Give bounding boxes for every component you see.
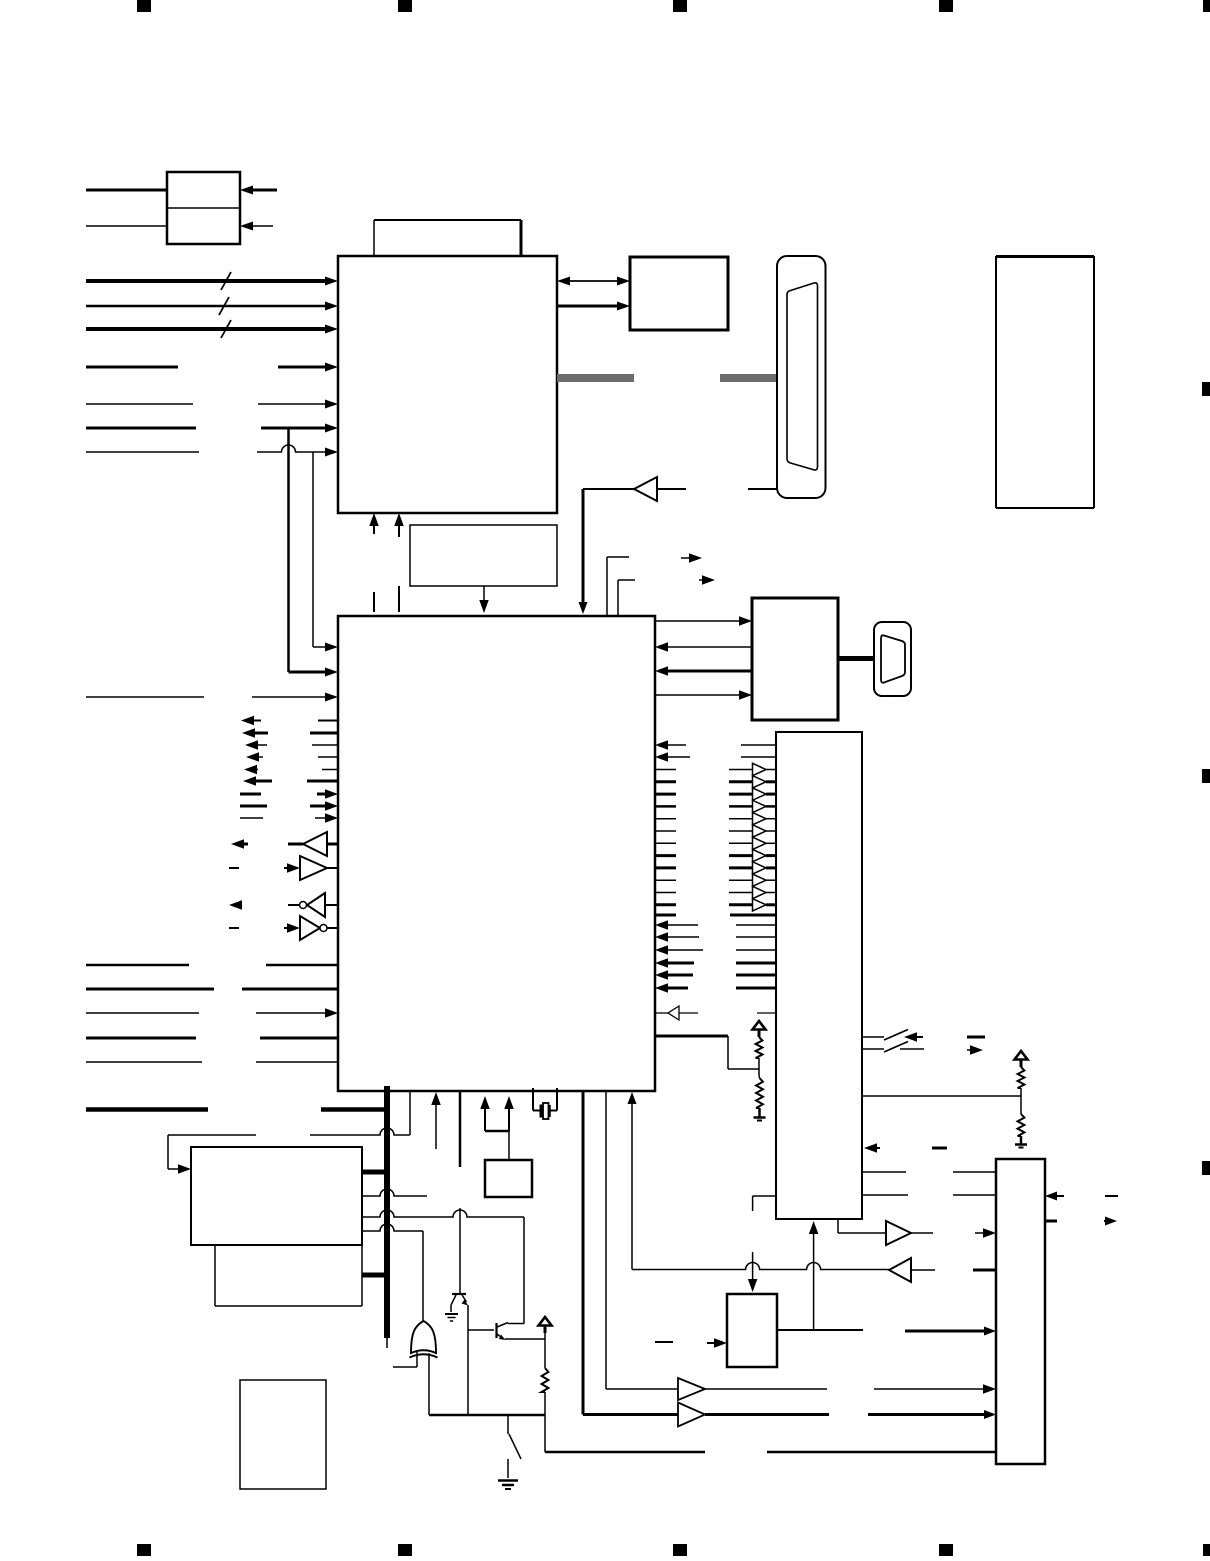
wire U7 output upper — [86, 189, 167, 192]
wire Q2 collector up — [508, 1323, 524, 1325]
ROM block U14 — [191, 1147, 362, 1245]
U2 output stub y781 — [307, 780, 338, 783]
wire U17b to U10 (arrow) — [705, 1384, 996, 1394]
direction arrow U6c — [229, 900, 242, 910]
inverter U6d (input) — [284, 916, 338, 940]
option block U18 — [240, 1380, 326, 1489]
buffer array element 10 — [753, 874, 777, 886]
wire U9 to U10 y1172 — [862, 1171, 996, 1173]
buffer array input row 2 — [729, 780, 752, 783]
power stub U15 to B1 — [362, 1273, 387, 1278]
direction arrow left y745 — [245, 740, 267, 750]
U2 stub row 11 — [655, 892, 676, 894]
wire Q2 emitter to R5 — [505, 1338, 545, 1340]
label dash y806 — [240, 805, 267, 808]
clock wires into U2 bottom — [480, 1096, 514, 1160]
transistor Q1 — [451, 1294, 468, 1312]
wire stub a above U2 — [373, 592, 375, 612]
wire branch node B down to U2 — [313, 452, 338, 652]
buffer U17a — [678, 1403, 705, 1427]
switch SW1 — [508, 1415, 521, 1478]
U2 stub row 12 — [655, 903, 676, 906]
buffer array input row 9 — [729, 866, 752, 869]
U2 stub row 8 — [655, 854, 676, 857]
wire stub corner c2 into U2 top — [618, 580, 635, 616]
pull-down resistor R2 — [756, 1075, 763, 1108]
wire branch node A down to U2 — [289, 428, 339, 677]
wire U11 to U10 (arrow) — [911, 1228, 996, 1238]
pull-up resistor R5 — [539, 1317, 552, 1415]
direction arrow left y757 — [246, 752, 263, 762]
wire rail to U10 (lower) — [545, 1415, 996, 1452]
wire into U2 y1062 — [86, 1061, 338, 1063]
buffer array element 11 — [753, 886, 777, 898]
crystal X1 — [533, 1088, 557, 1119]
switch SW3 — [862, 1042, 908, 1053]
wire U9 to U2 (arrow) y963 — [655, 958, 694, 968]
buffer array input row 6 — [729, 830, 752, 832]
power rail stub to bus — [321, 1107, 387, 1112]
buffer array input row 8 — [729, 854, 752, 857]
wire stub out of U10 y1221 — [1045, 1220, 1057, 1223]
buffer array element 1 — [753, 763, 777, 775]
buffer array input row 12 — [729, 903, 752, 906]
buffer array input row 4 — [729, 805, 752, 808]
wire U9 to U10 y1195 — [862, 1194, 996, 1196]
wire into U2 y965 — [86, 964, 338, 967]
buffer U4 (strobe) — [583, 477, 686, 501]
wire into U2 y818 — [315, 813, 338, 823]
buffer array input row 10 — [729, 879, 752, 881]
wire into U2 y794 — [317, 789, 338, 799]
sensor block U7 — [167, 172, 240, 244]
signal into U1 pin4 — [86, 363, 338, 372]
buffer array element 6 — [753, 825, 777, 837]
wire U5 to U2 (arrow) — [479, 586, 489, 613]
buffer array input row 1 — [729, 769, 752, 771]
wire stub corner c1 into U2 top — [607, 557, 629, 616]
ground (Q1) — [445, 1314, 458, 1321]
direction arrow left y733 — [242, 728, 268, 738]
U2 output stub y769 — [322, 769, 338, 771]
label dash right y1196 — [1105, 1195, 1118, 1197]
buffer array element 7 — [753, 837, 777, 849]
connector cable (thick) — [838, 656, 874, 661]
motor driver U10 — [996, 1159, 1045, 1464]
label dash y794 — [240, 793, 261, 796]
U2 stub row 5 — [655, 818, 676, 820]
label dash U6b — [229, 867, 239, 869]
wire into U2 y1013 — [86, 1008, 338, 1018]
interface block U8 — [752, 598, 838, 720]
XOR gate G1 — [410, 1321, 438, 1358]
wire U10 out to inverter U12 — [973, 1269, 996, 1272]
wire from SW3 — [900, 1048, 924, 1050]
U2 output stub y745 — [312, 744, 338, 746]
wire U12 west with hops to U2 bottom — [628, 1092, 890, 1270]
U2 output stub y733 — [310, 732, 338, 735]
ground (SW1) — [498, 1481, 518, 1490]
direction arrow right y1221 — [1104, 1217, 1117, 1226]
U2 stub row 3 — [655, 793, 676, 796]
control bus into U1 (slash) — [86, 320, 338, 338]
wire up into U1 bottom a — [369, 513, 379, 534]
open buffer (feedback) y1013 — [655, 1006, 698, 1020]
U2 stub row 2 — [655, 780, 676, 783]
wire into SW2 (arrow) — [904, 1032, 923, 1042]
wire U9 to U2 (arrow) y950 — [655, 945, 703, 955]
label dash U13 — [655, 1341, 673, 1343]
wire from U9 y963 — [736, 962, 776, 965]
buffer array element 9 — [753, 862, 777, 874]
wire Q1 emitter to Q2 base — [468, 1329, 494, 1331]
buffer array input row 5 — [729, 818, 752, 820]
wire U2 to divider R1 — [655, 1036, 759, 1069]
wire CN1 strobe stub — [748, 488, 777, 490]
wire stub into U9 y1013 — [757, 1012, 776, 1014]
U2 stub row 1 — [655, 769, 676, 771]
sensor block U13 — [727, 1294, 777, 1367]
ribbon bus segment 1 — [557, 374, 634, 382]
buffer U6b (input) — [284, 856, 338, 880]
ground (R4) — [1015, 1145, 1027, 1148]
wire U14 to Q2 collector (hops) — [362, 1210, 524, 1324]
transistor Q2 — [497, 1323, 509, 1341]
direction arrow U6a — [231, 839, 248, 849]
power rail stub left — [86, 1107, 208, 1112]
wire U17a to U10 (arrow) — [705, 1410, 996, 1419]
direction arrow left y781 — [243, 776, 272, 786]
wire U14 stub (hop over B1) y1196 — [362, 1189, 427, 1196]
wire U2 to buffer U17a — [583, 1092, 678, 1415]
wire U7 output lower — [86, 225, 167, 227]
switch SW2 — [862, 1030, 908, 1041]
wire into U10 right (arrow) — [1045, 1192, 1064, 1201]
buffer array input row 3 — [729, 793, 752, 796]
wire U2 to U14 (corner, hop over B1) — [168, 1092, 410, 1174]
buffer array element 3 — [753, 788, 777, 800]
pull-up resistor R3 — [1015, 1051, 1028, 1096]
signal into U1 pin6 (junction at 288) — [86, 424, 338, 433]
RAM block U3 — [630, 257, 728, 330]
wire U9 to U13 (corner) — [753, 1196, 776, 1211]
wire out of U9 (arrow) y1148 — [864, 1143, 880, 1153]
wire U8 to U2 (arrow) y671 — [655, 666, 752, 676]
wire U8 to U2 (arrow) y647 — [655, 642, 752, 652]
wire into U2 y1038 — [86, 1037, 338, 1040]
wire into U2 y806 — [310, 801, 338, 811]
signal into U1 pin7 (hop over branch) — [86, 445, 338, 456]
U2 stub row 6 — [655, 830, 676, 832]
wire U9 to buffer U11 — [838, 1219, 886, 1233]
connector CN1 — [777, 256, 826, 498]
U2 output stub y720 — [318, 720, 338, 722]
wire into U7 lower (arrow) — [240, 222, 273, 231]
wire Q1 emitter down — [467, 1305, 469, 1415]
wire into U13 (arrow) — [748, 1252, 758, 1292]
power bus B1 — [384, 1086, 390, 1348]
inverter U6c (output) — [288, 893, 338, 917]
wire up into U2 bottom x436 — [431, 1092, 441, 1149]
ground rail wire — [429, 1414, 545, 1417]
bidirectional wire U1 to U3 — [557, 277, 630, 286]
wire U2 to U8 (arrow) y695 — [655, 690, 752, 700]
buffer U6a (output) — [288, 832, 338, 856]
buffer array element 8 — [753, 849, 777, 861]
wire U9 to U2 (arrow) y937 — [655, 932, 699, 942]
connector CN2 — [874, 622, 911, 696]
ground (R2) — [754, 1108, 766, 1121]
label dash SW — [967, 1036, 985, 1039]
wire U2 to buffer U17b — [606, 1092, 678, 1389]
wire into U7 upper (arrow) — [240, 186, 277, 195]
wire into U2 y989 — [86, 988, 338, 991]
wire into U9 y745 — [741, 744, 776, 746]
direction arrow c2 — [699, 575, 715, 585]
wire from U9 y975 — [736, 974, 776, 977]
wire U9 to U2 (arrow) y975 — [655, 970, 693, 980]
label dash U6d — [229, 927, 239, 929]
label dash y1148 — [932, 1147, 947, 1150]
oscillator module U16 — [485, 1160, 532, 1197]
driver array U9 — [776, 732, 862, 1219]
oscillator block U5 — [410, 525, 557, 586]
label box above U1 — [374, 220, 521, 256]
wire up into U1 bottom b — [394, 513, 404, 537]
buffer array element 2 — [753, 776, 777, 788]
label dash y818 — [240, 817, 263, 819]
wire U14 to XOR output (hop) — [362, 1224, 423, 1321]
buffer array element 12 — [753, 899, 777, 911]
power stub U14 to B1 — [362, 1170, 387, 1175]
wire from U9 y950 — [736, 949, 776, 951]
wire U1 to U3 (arrow) — [557, 302, 630, 311]
gate array IC U2 — [338, 616, 655, 1091]
wire out of U2 y757 — [655, 752, 690, 762]
controller IC U1 — [338, 256, 557, 513]
table block TB1 — [996, 256, 1094, 508]
inverter U12 — [889, 1258, 935, 1282]
U2 stub row 9 — [655, 866, 676, 869]
direction arrow SW — [967, 1045, 983, 1055]
buffer U11 — [886, 1221, 911, 1245]
data bus into U1 (slash) — [86, 272, 338, 290]
wire up into U9 bottom (arrow) — [809, 1221, 819, 1330]
wire from U9 y937 — [736, 936, 776, 938]
wire stub b above U2 — [398, 586, 400, 612]
wire XOR input 2 from rail — [428, 1353, 430, 1415]
direction arrow left y769 — [244, 765, 258, 775]
wire XOR input 1 — [393, 1352, 417, 1367]
wire U2 to Q1 base x460 — [459, 1092, 462, 1294]
direction arrow c1 — [681, 553, 702, 563]
wire into U9 row 13 — [730, 914, 776, 917]
buffer array input row 7 — [729, 842, 752, 844]
wire U9 to U2 (arrow) y988 — [655, 983, 688, 993]
ROM block U15 — [191, 1245, 362, 1306]
wire into U2 pin row 697 — [86, 693, 338, 702]
wire out of U2 y745 — [655, 740, 686, 750]
wire from U9 y988 — [736, 987, 776, 990]
wire from U9 y925 — [736, 924, 776, 926]
U2 stub row 13 — [655, 914, 676, 917]
wire into U13 left (arrow) — [707, 1338, 727, 1348]
buffer array input row 11 — [729, 892, 752, 894]
signal into U1 pin5 — [86, 400, 338, 409]
pull-up resistor R1 — [753, 1021, 766, 1075]
ribbon bus segment 2 — [720, 374, 777, 382]
wire U9 to U2 (arrow) y925 — [655, 920, 698, 930]
wire U13 to U10 (arrow) — [777, 1327, 996, 1336]
U2 stub row 10 — [655, 879, 676, 881]
pull-down resistor R4 — [1018, 1096, 1025, 1144]
wire tap U9 to R3/R4 — [862, 1095, 1021, 1097]
wire strobe down to U2 — [579, 489, 588, 614]
wire into U9 y757 — [741, 756, 776, 758]
U2 stub row 4 — [655, 805, 676, 808]
U2 output stub y757 — [318, 756, 338, 758]
U2 stub row 7 — [655, 842, 676, 844]
address bus into U1 (slash) — [86, 297, 338, 315]
buffer array element 4 — [753, 800, 777, 812]
wire U2 to U8 (arrow) y621 — [655, 616, 752, 626]
direction arrow left y720 — [241, 716, 261, 726]
buffer array element 5 — [753, 813, 777, 825]
buffer U17b — [678, 1378, 705, 1400]
